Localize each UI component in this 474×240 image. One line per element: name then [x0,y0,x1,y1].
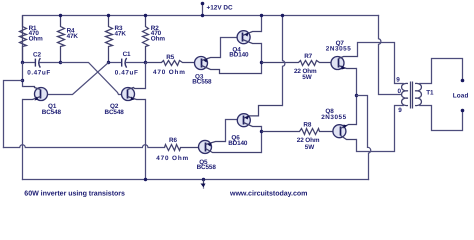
svg-text:Load: Load [453,92,469,99]
svg-text:BC558: BC558 [197,164,217,171]
resistor R8 [262,129,334,135]
svg-text:9: 9 [396,76,400,83]
svg-text:R5: R5 [166,54,174,61]
resistor R3 [106,16,113,63]
wire Q7/Q8 emitters junction [356,69,358,125]
wire R3 to C1 [109,62,121,64]
node R3/C1 [107,61,110,64]
+12V terminal stub [202,4,204,16]
resistor R5 [146,61,195,66]
transistor Q5 BC558 [197,140,262,171]
node R2/C1/R5 [144,61,147,64]
svg-text:2N3055: 2N3055 [321,114,347,121]
svg-text:BC548: BC548 [105,109,125,116]
load terminal bottom [461,109,465,113]
wire C1 to R2 node [126,62,146,64]
wire Q8 collector to T1 bottom [357,106,404,152]
svg-text:5W: 5W [302,74,311,81]
svg-text:470 Ohm: 470 Ohm [153,69,186,76]
svg-text:R7: R7 [304,53,312,60]
node driver 2 output [260,130,263,133]
wire secondary top to load [420,59,463,84]
resistor R6 [165,145,199,151]
svg-text:R8: R8 [303,121,311,128]
svg-text:0.47uF: 0.47uF [115,70,139,77]
wire astable top line [23,62,35,64]
svg-text:Ohm: Ohm [151,36,166,43]
wire cross-couple A to Q2 base [61,63,127,95]
svg-text:www.circuitstoday.com: www.circuitstoday.com [229,190,307,198]
wire Q7 collector to T1 top [358,43,404,84]
wire C2 to R4 node [40,62,61,64]
svg-text:47K: 47K [115,31,127,38]
transistor Q2 BC548 [105,88,146,116]
wire rail to T1 center tap with hop [379,16,402,95]
transformer T1 [396,76,434,114]
primary winding [402,83,408,105]
wire Q1 collector up to node [23,63,24,87]
wire Q2 collector up to node [145,63,147,89]
node Q1 collector feedback junction [21,79,24,82]
core [410,82,412,109]
svg-text:BC558: BC558 [192,79,212,86]
wire Q2 emitter down [145,100,147,180]
wire cross-couple B from Q1 base [42,63,109,95]
svg-text:470 Ohm: 470 Ohm [156,155,189,162]
ground rail [23,179,369,181]
wire Q6 emitter to rail with hop [283,16,285,106]
svg-text:+12V DC: +12V DC [207,4,233,11]
svg-text:C2: C2 [33,52,41,59]
svg-text:BC548: BC548 [42,109,62,116]
wire Q1 emitter down [22,100,24,180]
svg-text:0: 0 [398,88,402,95]
resistor R7 [262,61,332,66]
svg-text:5W: 5W [305,144,314,151]
svg-text:Ohm: Ohm [29,36,44,43]
load terminal top [461,79,465,83]
svg-text:R6: R6 [169,137,177,144]
svg-text:C1: C1 [123,51,131,58]
transistor Q3 BC558 [192,57,261,86]
+12V DC supply rail [23,16,379,63]
svg-text:47K: 47K [67,33,79,40]
wire Q6 collector to node [261,127,263,153]
node R4/C2 [59,61,62,64]
resistor R2 [143,16,149,63]
wire secondary bottom to load [420,106,463,131]
wire feedback bottom line with hops [4,145,165,148]
svg-text:0.47uF: 0.47uF [27,69,51,76]
wire Q4 collector to node [261,44,263,74]
resistor R1 [20,16,27,63]
svg-text:BD140: BD140 [228,140,248,147]
svg-text:60W inverter using transistors: 60W inverter using transistors [24,190,125,198]
svg-text:BD140: BD140 [229,52,249,59]
node driver 1 output [260,61,263,64]
secondary winding [415,83,421,105]
svg-text:T1: T1 [426,90,434,97]
ground symbol [201,178,206,189]
transistor Q1 BC548 [23,87,62,116]
svg-text:9: 9 [398,107,402,114]
svg-text:2N3055: 2N3055 [326,46,352,53]
node R1/C2 [21,61,24,64]
transistor Q8 2N3055 [321,108,356,140]
capacitor C2 [35,59,36,67]
transistor Q7 2N3055 [326,40,358,70]
wire emitters to ground with hop [357,96,371,180]
wire Q5 emitter to Q6 base [226,120,244,142]
resistor R4 [58,16,65,63]
wire Q4 emitter to rail [261,16,263,32]
wire feedback to left edge [4,81,23,148]
wire Q3 emitter to Q4 base [221,38,243,58]
capacitor C1 [121,59,122,67]
transistor Q6 BD140 [228,106,282,147]
transistor Q4 BD140 [229,31,261,59]
